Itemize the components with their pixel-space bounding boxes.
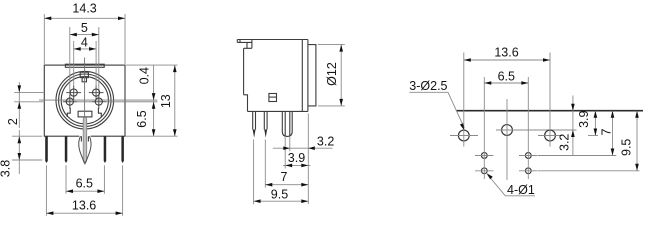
svg-text:Ø12: Ø12 — [325, 62, 339, 86]
svg-text:6.5: 6.5 — [135, 110, 149, 127]
svg-text:4-Ø1: 4-Ø1 — [507, 183, 535, 197]
dimension 3.2 footprint — [572, 96, 574, 156]
connector body front — [44, 65, 125, 136]
small side hole inner line — [269, 96, 277, 98]
vertical centerline — [84, 58, 86, 118]
svg-text:7: 7 — [600, 128, 614, 135]
upper pin row crosshair right — [89, 92, 104, 94]
ext line pin5 right column — [98, 27, 100, 109]
small side hole detail — [269, 94, 277, 102]
dimension diameter 12 — [318, 44, 345, 46]
side pin 1 — [253, 111, 256, 129]
lower pin row line — [63, 101, 157, 103]
pin lower-right — [95, 98, 102, 105]
svg-text:3.9: 3.9 — [577, 110, 591, 127]
dimension 7 side — [265, 184, 308, 186]
dimension 3.9 side — [283, 164, 311, 166]
hole center 2.5 — [502, 125, 513, 136]
svg-text:6.5: 6.5 — [498, 70, 515, 84]
dimension 13.6 bottom — [46, 212, 122, 214]
ext line side hole row — [588, 135, 598, 137]
ext line pin2 — [264, 140, 266, 188]
pin lower-right slot detail — [98, 108, 101, 117]
inner back face line — [301, 40, 303, 112]
small hole bottom-left 1 — [481, 168, 487, 174]
svg-text:5: 5 — [81, 21, 88, 35]
outer shield ring — [56, 71, 114, 129]
dimension 14.3 — [43, 14, 45, 64]
dimension 0.4 and 6.5 inner line — [153, 65, 155, 136]
ext line shield leg right — [289, 136, 291, 151]
svg-text:9.5: 9.5 — [271, 187, 288, 201]
ext line pin1 — [253, 140, 255, 205]
svg-text:3-Ø2.5: 3-Ø2.5 — [409, 79, 447, 93]
side body left edge — [243, 48, 245, 95]
small hole top-left 1 — [481, 153, 487, 159]
front bezel flange — [308, 45, 316, 106]
upper pin row crosshair left — [66, 92, 81, 94]
dimension 9.5 side — [254, 200, 309, 202]
dimension 3.2 side — [273, 147, 333, 149]
side body top edge — [237, 39, 308, 41]
pin lower-left — [66, 98, 73, 105]
bottom keyway rectangle — [78, 111, 92, 117]
pin upper-right — [93, 89, 100, 96]
side body bottom edge — [248, 110, 308, 112]
ext line body bottom right — [126, 135, 178, 137]
top hook tab — [237, 40, 252, 49]
svg-text:9.5: 9.5 — [619, 139, 633, 156]
ext line pin5 left column — [69, 27, 71, 109]
hole left 2.5 — [458, 130, 469, 141]
middle shield ring — [59, 74, 111, 126]
left pin leg — [65, 136, 68, 163]
svg-text:14.3: 14.3 — [72, 1, 96, 15]
ext line body back — [307, 114, 309, 205]
svg-text:2: 2 — [6, 118, 20, 125]
hole left centerlines — [450, 135, 478, 137]
ext lines below legs — [65, 165, 67, 193]
ext line body top right — [126, 64, 178, 66]
dimension 6.5 footprint — [484, 82, 528, 84]
svg-text:3.2: 3.2 — [317, 135, 334, 149]
pin cross verticals — [70, 86, 99, 109]
left mounting leg — [45, 136, 48, 163]
right pin leg — [104, 136, 107, 163]
board reference line — [457, 110, 643, 112]
ext line pin4 left column — [73, 41, 75, 100]
svg-text:3.8: 3.8 — [0, 160, 13, 177]
svg-text:7: 7 — [281, 170, 288, 184]
pin cross horizontals lower — [63, 101, 106, 103]
center shield leg inner edges — [81, 136, 88, 141]
hole right centerlines — [538, 135, 562, 137]
svg-text:6.5: 6.5 — [76, 176, 93, 190]
circle horizontal centerline — [39, 99, 157, 101]
center shield leg gray band — [83, 117, 87, 161]
right mounting leg — [121, 136, 124, 163]
dimension 3.8 left — [12, 135, 42, 137]
svg-text:3.2: 3.2 — [558, 134, 572, 151]
side pin 2 — [264, 111, 267, 129]
side body back edge — [307, 40, 309, 112]
shield tab at top edge — [65, 64, 104, 67]
dimension 2 left — [14, 91, 44, 93]
svg-text:0.4: 0.4 — [137, 67, 151, 84]
bottom-left step — [244, 95, 248, 112]
ext line small bottom row to dims — [538, 170, 640, 172]
dimension 3.9 footprint — [594, 111, 596, 136]
ext line pin4 right column — [95, 41, 97, 100]
center shield leg outline — [79, 136, 91, 164]
dimension 6.5 bottom — [66, 190, 104, 192]
ext line small top row to dims — [538, 155, 616, 157]
svg-text:3.9: 3.9 — [288, 151, 305, 165]
inner insert circle — [61, 77, 108, 124]
side shield leg outer — [282, 111, 292, 136]
small hole bottom-right 1 — [525, 168, 531, 174]
body bottom edge break at center leg — [79, 135, 90, 137]
small hole column centerlines — [483, 77, 485, 179]
svg-text:13.6: 13.6 — [72, 198, 96, 212]
hole center centerlines — [496, 129, 577, 131]
small hole top-right 1 — [525, 153, 531, 159]
svg-text:4: 4 — [81, 35, 88, 49]
dimension 9.5 footprint — [636, 111, 638, 171]
small hole row lines — [475, 155, 494, 157]
dimension 5 — [70, 34, 99, 36]
dimension 7 footprint — [612, 111, 614, 156]
svg-text:13.6: 13.6 — [494, 45, 518, 59]
dimension 13.6 footprint — [464, 59, 550, 61]
ext line shield leg left — [284, 136, 286, 168]
top key notch inner — [82, 78, 86, 82]
dimension 13 right — [174, 65, 176, 136]
pin upper-left — [70, 89, 77, 96]
dimension 4 — [74, 48, 96, 50]
hole right 2.5 — [545, 130, 556, 141]
side shield leg inner lines — [285, 111, 290, 135]
svg-text:13: 13 — [159, 94, 173, 108]
pin lower-left slot detail — [67, 108, 70, 117]
top key notch outer — [80, 72, 88, 77]
